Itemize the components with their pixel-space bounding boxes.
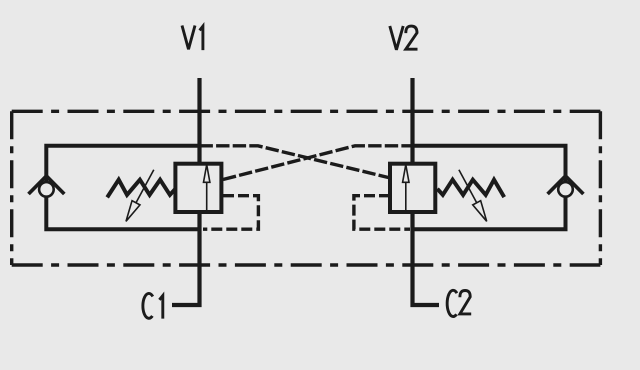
adjustment arrow across S2 xyxy=(459,170,487,222)
pilot line from V1 to B2 (dashed, crossing) xyxy=(200,146,389,178)
port V1 line (lower segment) to C1 stub xyxy=(172,212,200,305)
adjustment arrow across S1 xyxy=(126,170,154,222)
drain loop of B1 (dashed) xyxy=(203,196,258,230)
spring S1 (adjustable) xyxy=(107,180,175,198)
check valve CV1 ball xyxy=(39,182,54,197)
label C2 xyxy=(447,290,471,316)
label V1 xyxy=(182,26,203,51)
relief valve box B2 xyxy=(390,164,435,212)
right check-valve branch top rail xyxy=(413,146,566,181)
spring S2 (adjustable) xyxy=(437,180,504,197)
relief valve box B1 xyxy=(175,164,221,212)
drain loop of B2 (dashed) xyxy=(354,196,410,230)
check valve CV2 ball xyxy=(558,182,573,197)
label C1 xyxy=(143,293,163,318)
valve body envelope (dash-dot border) xyxy=(12,111,601,265)
left check-valve branch top rail xyxy=(46,146,199,181)
left check-valve branch bottom rail xyxy=(46,197,199,229)
check valve CV1 seat xyxy=(29,176,65,194)
flow arrow in B2 xyxy=(403,165,409,212)
check valve CV2 seat xyxy=(548,176,584,194)
right check-valve branch bottom rail xyxy=(413,197,566,229)
port V1 line (upper segment) xyxy=(197,78,201,164)
pilot line from B1 to V2 (dashed, crossing) xyxy=(223,146,413,180)
label V2 xyxy=(390,26,418,50)
flow arrow in B1 xyxy=(204,165,210,212)
port V2 line (upper segment) xyxy=(410,78,414,164)
port V2 line (lower segment) to C2 stub xyxy=(413,212,440,305)
